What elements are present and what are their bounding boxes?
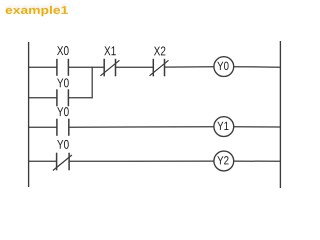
coil Y0 (214, 57, 234, 77)
contact Y0 (normally open, parallel with X0) (57, 89, 69, 106)
title shadow (6, 4, 68, 14)
wire rung2: left rail to contact Y0 (29, 126, 57, 128)
label Y0 (rung 3 contact) (57, 140, 69, 149)
wire rung1: X2 to coil Y0 (165, 66, 214, 68)
contact X1 (normally closed) (100, 59, 119, 77)
contact Y0 (normally open, rung 2) (57, 119, 69, 136)
wire rung3: coil Y2 to right rail (234, 160, 281, 162)
wire parallel branch: left rail to contact Y0 (29, 97, 57, 99)
right power rail (279, 41, 281, 188)
wire rung2: coil Y1 to right rail (234, 126, 281, 128)
label Y0 (parallel branch contact) (57, 78, 69, 87)
wire parallel branch: contact Y0 to junction (68, 97, 92, 99)
label X2 (154, 46, 165, 55)
contact X2 (normally closed) (150, 59, 169, 77)
contact X0 (normally open) (57, 59, 69, 76)
coil Y1 (214, 117, 234, 137)
coil Y2 (214, 151, 234, 171)
left power rail (28, 42, 30, 187)
title "example1" (6, 6, 68, 16)
wire rung2: contact Y0 to coil Y1 (69, 126, 214, 128)
label Y0 (rung 2 contact) (57, 107, 69, 116)
wire branch junction vertical (91, 67, 93, 99)
wire rung1: X0 to X1 through branch junction (68, 66, 104, 68)
wire rung3: left rail to contact Y0 (29, 160, 57, 162)
label X0 (57, 46, 69, 55)
label X1 (104, 46, 116, 55)
wire rung1: left rail to contact X0 (29, 66, 57, 68)
wire rung3: contact Y0 to coil Y2 (69, 160, 214, 162)
contact Y0 (normally closed, rung 3) (53, 153, 72, 171)
wire rung1: X1 to X2 (116, 66, 154, 68)
wire rung1: coil Y0 to right rail (234, 66, 281, 69)
